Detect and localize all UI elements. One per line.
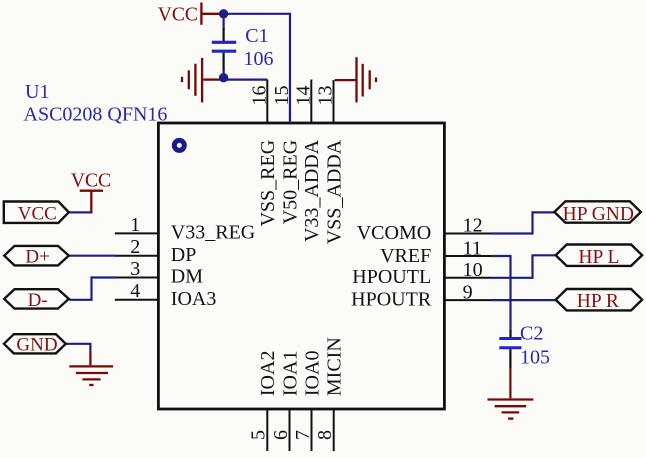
svg-text:VSS_REG: VSS_REG — [257, 140, 279, 227]
svg-text:GND: GND — [16, 335, 57, 356]
svg-text:1: 1 — [130, 214, 140, 236]
svg-text:IOA3: IOA3 — [171, 288, 217, 310]
svg-text:HPOUTR: HPOUTR — [351, 289, 432, 311]
svg-text:15: 15 — [271, 86, 293, 106]
svg-text:IOA2: IOA2 — [257, 351, 279, 397]
svg-text:V50_REG: V50_REG — [280, 140, 302, 224]
svg-text:ASC0208 QFN16: ASC0208 QFN16 — [24, 104, 168, 126]
svg-text:HP GND: HP GND — [563, 204, 634, 225]
svg-text:16: 16 — [249, 86, 271, 106]
svg-text:IOA1: IOA1 — [279, 351, 301, 397]
svg-text:13: 13 — [315, 86, 337, 106]
svg-text:V33_REG: V33_REG — [171, 222, 255, 244]
svg-text:105: 105 — [520, 347, 550, 369]
svg-text:VCOMO: VCOMO — [357, 222, 431, 244]
svg-text:3: 3 — [130, 258, 140, 280]
svg-text:7: 7 — [292, 430, 314, 440]
svg-text:U1: U1 — [25, 81, 49, 103]
svg-text:MICIN: MICIN — [324, 337, 346, 396]
svg-text:6: 6 — [270, 430, 292, 440]
svg-text:DM: DM — [171, 266, 203, 288]
svg-text:DP: DP — [171, 244, 197, 266]
svg-text:D+: D+ — [25, 246, 49, 267]
svg-text:10: 10 — [463, 259, 483, 281]
svg-text:V33_ADDA: V33_ADDA — [301, 139, 323, 242]
svg-text:C1: C1 — [245, 25, 268, 47]
svg-text:IOA0: IOA0 — [301, 351, 323, 397]
svg-text:9: 9 — [463, 282, 473, 304]
svg-text:4: 4 — [130, 280, 140, 302]
svg-text:12: 12 — [463, 215, 483, 237]
svg-text:11: 11 — [463, 238, 482, 260]
svg-text:D-: D- — [28, 290, 48, 311]
svg-text:VSS_ADDA: VSS_ADDA — [323, 139, 345, 244]
svg-text:VCC: VCC — [18, 204, 57, 225]
svg-text:2: 2 — [130, 236, 140, 258]
svg-text:5: 5 — [248, 430, 270, 440]
svg-text:HP L: HP L — [578, 247, 619, 268]
svg-text:HP R: HP R — [577, 291, 619, 312]
svg-text:VREF: VREF — [380, 245, 431, 267]
svg-text:VCC: VCC — [71, 170, 111, 191]
svg-text:14: 14 — [293, 86, 315, 106]
svg-text:106: 106 — [244, 48, 274, 70]
svg-text:8: 8 — [314, 430, 336, 440]
svg-text:C2: C2 — [520, 323, 543, 345]
svg-text:HPOUTL: HPOUTL — [352, 266, 431, 288]
svg-text:VCC: VCC — [158, 4, 198, 25]
